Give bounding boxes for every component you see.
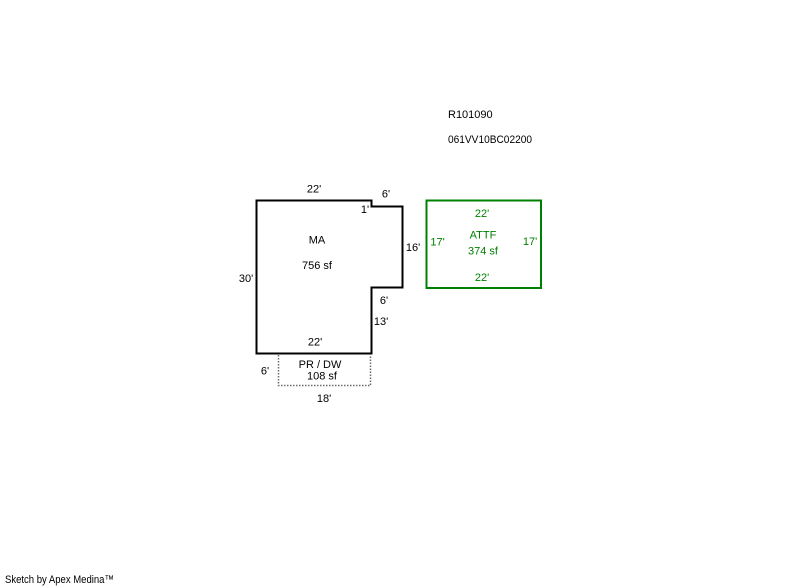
svg-text:MA: MA xyxy=(309,235,326,247)
svg-text:22': 22' xyxy=(307,184,321,196)
svg-text:16': 16' xyxy=(406,242,420,254)
svg-text:17': 17' xyxy=(523,236,537,248)
svg-text:1': 1' xyxy=(361,204,369,216)
svg-text:108 sf: 108 sf xyxy=(307,371,338,383)
main area MA outline xyxy=(257,201,403,354)
svg-text:6': 6' xyxy=(380,295,388,307)
svg-text:17': 17' xyxy=(430,237,444,249)
svg-text:18': 18' xyxy=(317,393,331,405)
svg-text:ATTF: ATTF xyxy=(470,230,497,242)
svg-text:756 sf: 756 sf xyxy=(302,260,333,272)
svg-text:13': 13' xyxy=(374,316,388,328)
svg-text:6': 6' xyxy=(382,189,390,201)
porch / driveway PR/DW dashed outline xyxy=(279,355,371,386)
svg-text:PR / DW: PR / DW xyxy=(299,359,342,371)
svg-text:Sketch by Apex Medina™: Sketch by Apex Medina™ xyxy=(5,574,114,586)
attached structure ATTF outline xyxy=(427,201,542,289)
svg-text:374 sf: 374 sf xyxy=(468,246,499,258)
svg-text:6': 6' xyxy=(261,366,269,378)
svg-text:061VV10BC02200: 061VV10BC02200 xyxy=(448,134,532,146)
svg-text:22': 22' xyxy=(475,272,489,284)
svg-text:22': 22' xyxy=(308,337,322,349)
svg-text:R101090: R101090 xyxy=(448,109,493,121)
svg-text:22': 22' xyxy=(475,208,489,220)
svg-text:30': 30' xyxy=(239,273,253,285)
